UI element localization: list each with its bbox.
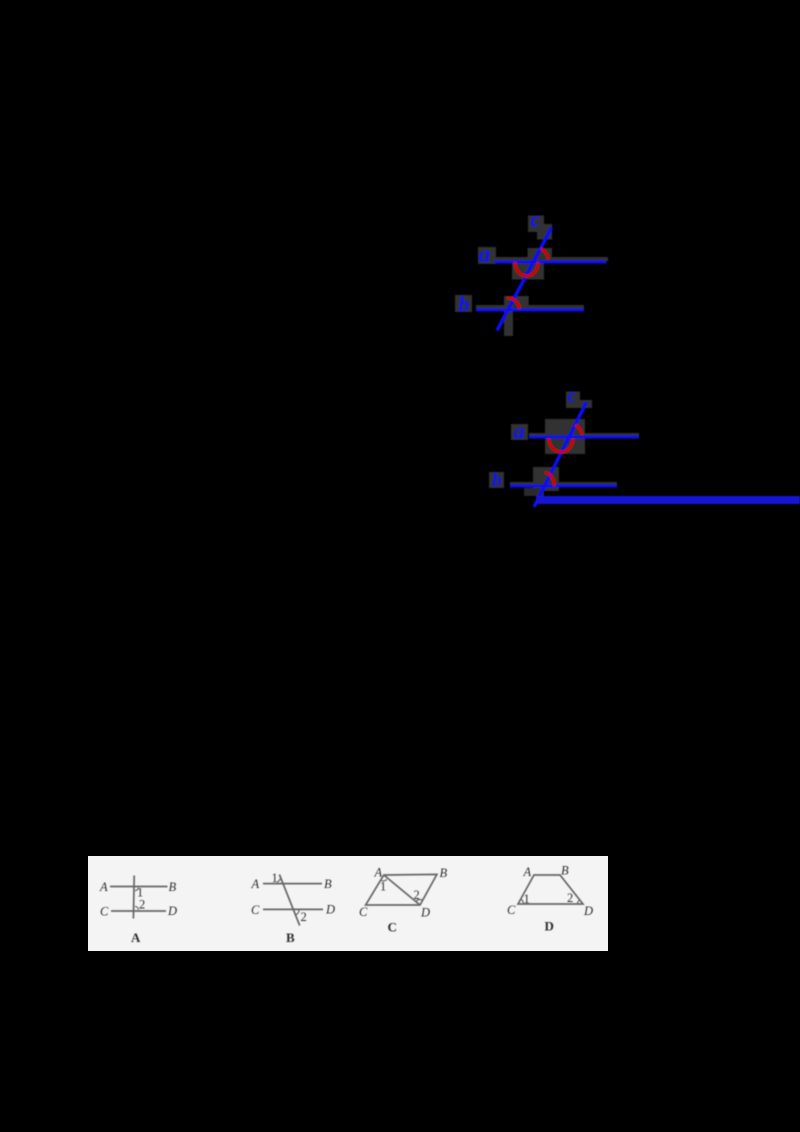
svg-text:A: A xyxy=(251,877,260,891)
svg-text:2: 2 xyxy=(301,910,307,924)
svg-text:c: c xyxy=(568,386,577,407)
svg-text:a: a xyxy=(479,242,491,268)
svg-text:C: C xyxy=(251,903,260,917)
svg-text:B: B xyxy=(440,866,448,880)
svg-text:1: 1 xyxy=(524,892,530,906)
svg-text:D: D xyxy=(583,904,593,918)
svg-text:B: B xyxy=(324,877,332,891)
svg-text:A: A xyxy=(131,930,141,945)
svg-text:C: C xyxy=(359,905,368,919)
svg-text:D: D xyxy=(545,919,554,934)
svg-text:D: D xyxy=(325,903,335,917)
svg-text:1: 1 xyxy=(272,871,278,885)
svg-text:2: 2 xyxy=(139,898,145,912)
svg-text:A: A xyxy=(374,866,383,880)
svg-text:B: B xyxy=(561,864,569,878)
svg-text:2: 2 xyxy=(567,891,573,905)
svg-text:C: C xyxy=(388,920,397,935)
svg-text:C: C xyxy=(100,905,109,919)
svg-text:D: D xyxy=(420,906,430,920)
svg-text:2: 2 xyxy=(414,888,420,902)
svg-text:D: D xyxy=(167,904,177,918)
svg-text:a: a xyxy=(514,418,525,443)
svg-text:b: b xyxy=(459,292,470,317)
svg-text:b: b xyxy=(492,470,502,491)
svg-text:B: B xyxy=(286,930,295,945)
svg-text:A: A xyxy=(99,880,108,894)
svg-text:c: c xyxy=(531,206,541,231)
svg-text:A: A xyxy=(523,865,532,879)
svg-text:C: C xyxy=(507,903,516,917)
svg-text:B: B xyxy=(169,880,177,894)
svg-text:1: 1 xyxy=(380,880,386,894)
